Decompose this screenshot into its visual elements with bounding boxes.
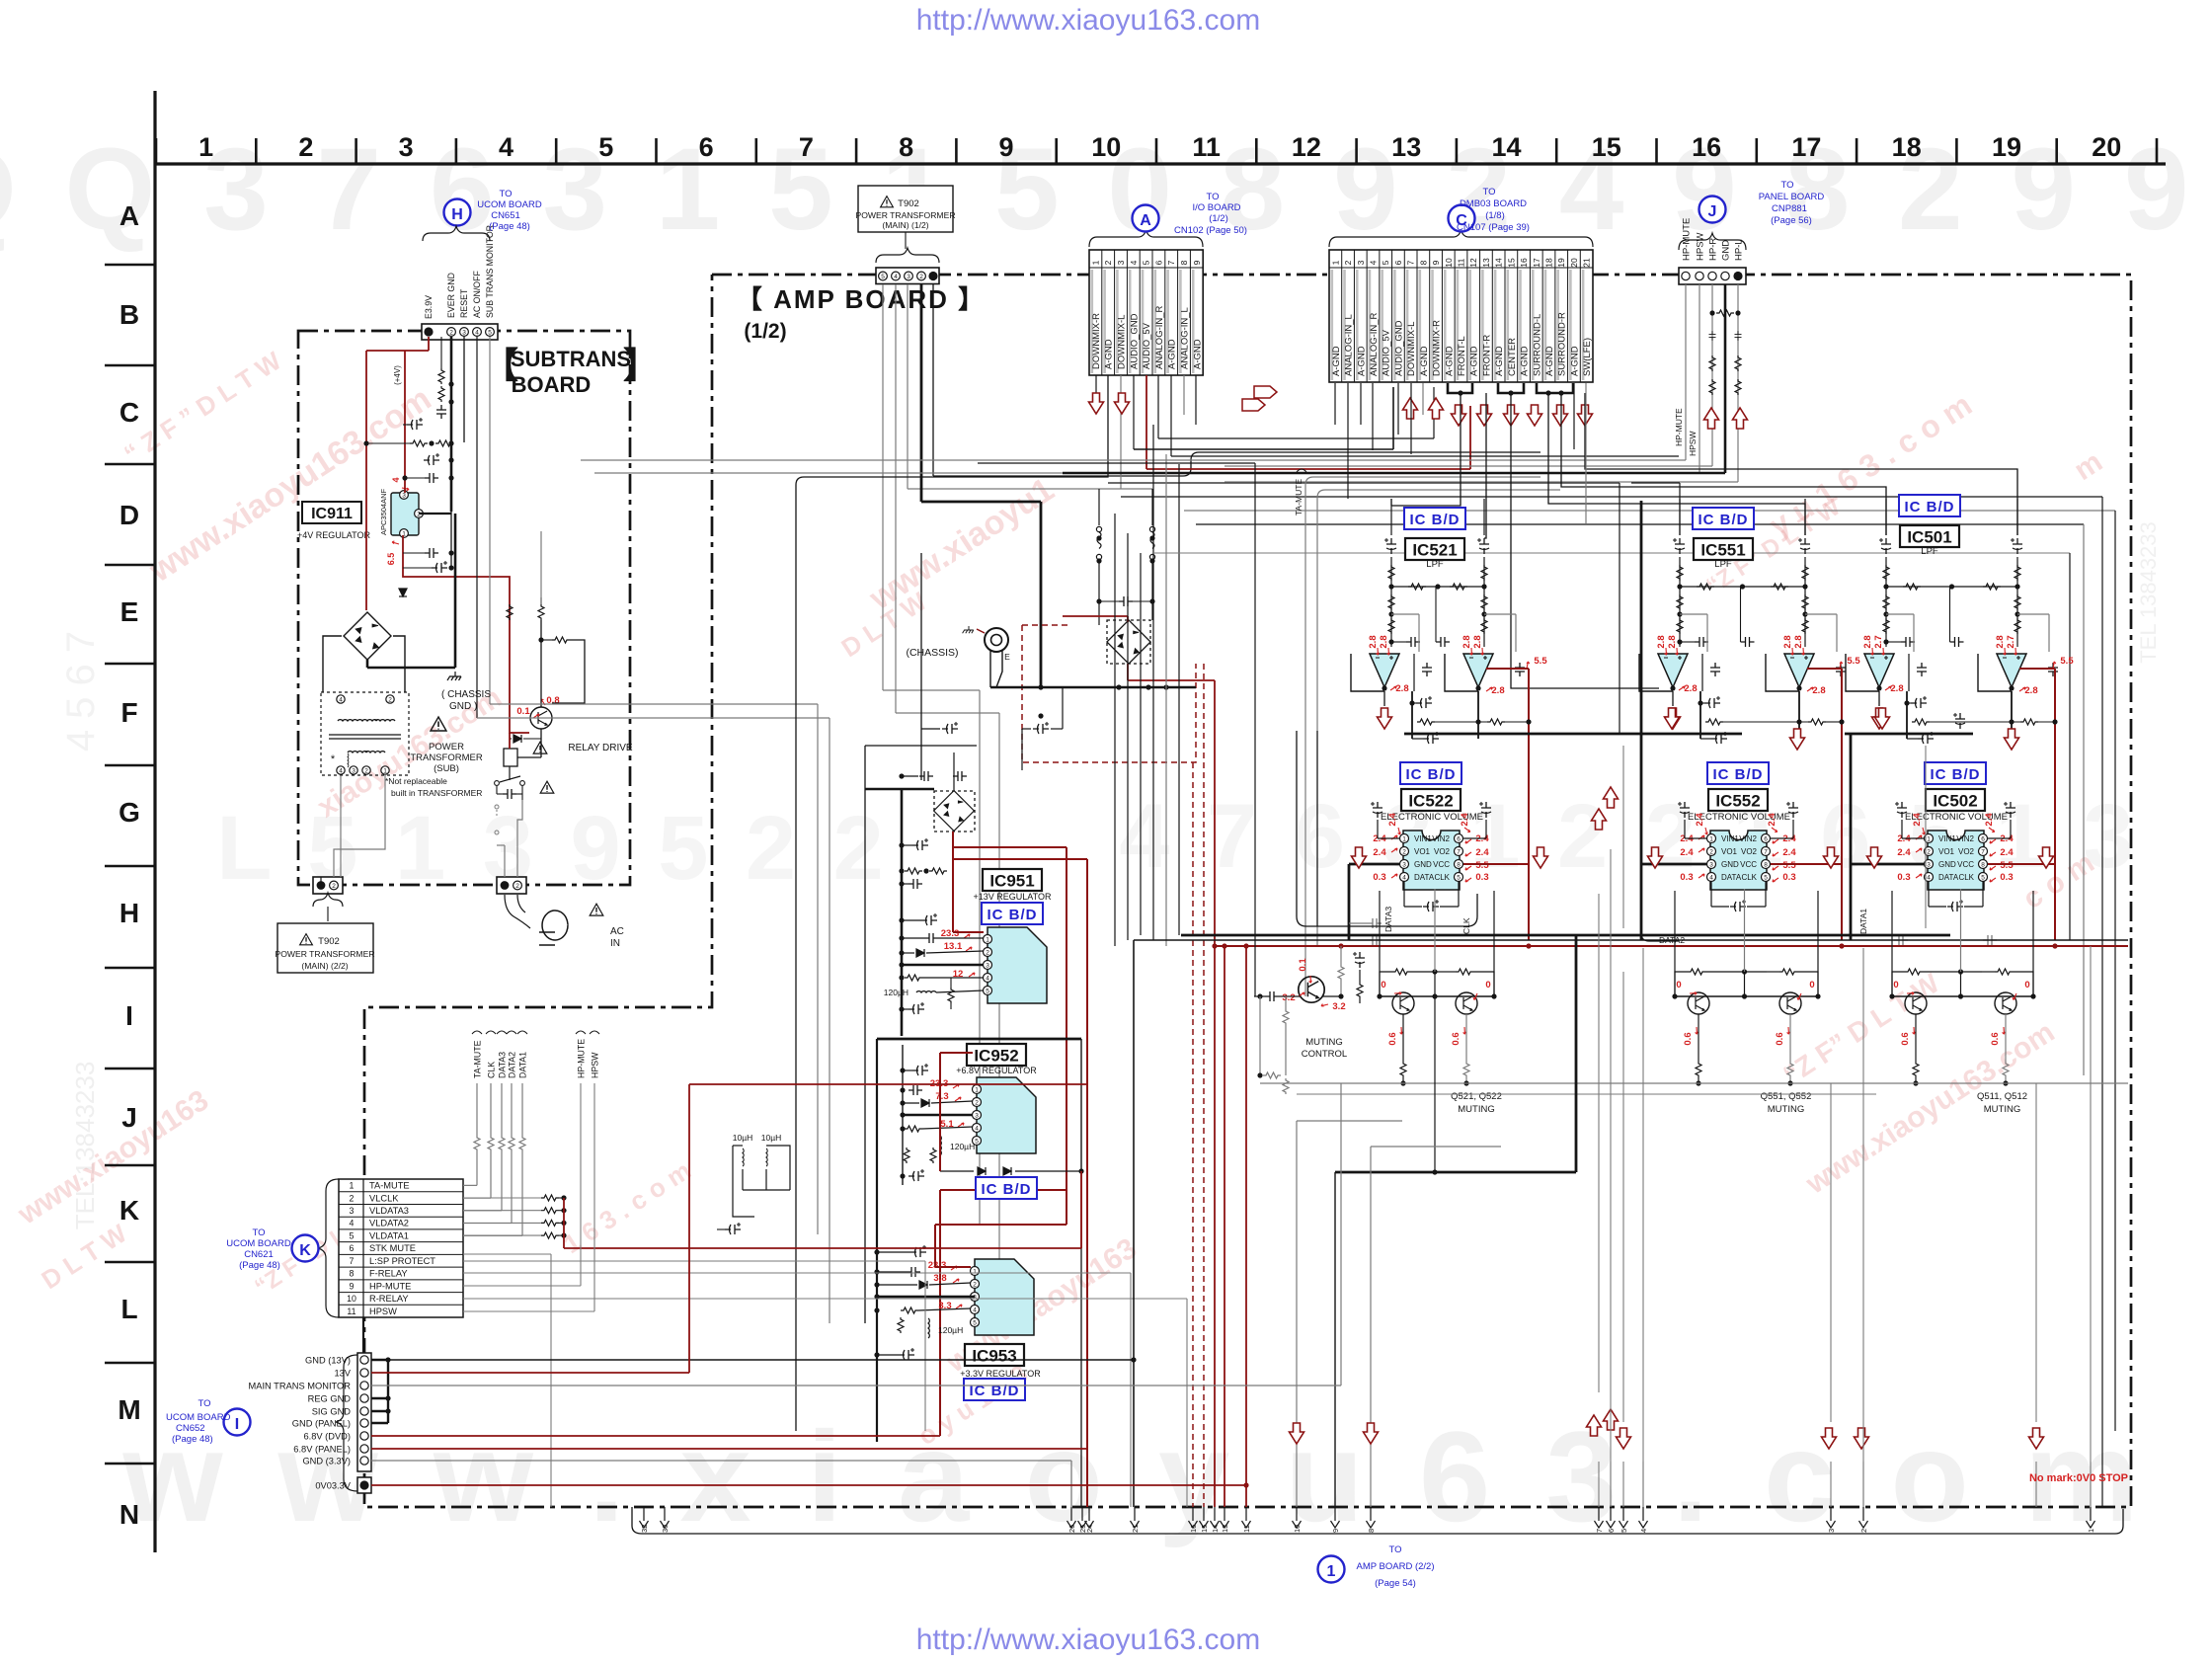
svg-text:9: 9: [350, 1281, 355, 1291]
wire +4V red rail: [428, 337, 430, 351]
rail IC952: [902, 1045, 904, 1185]
muting transistors Q551, Q552: [1688, 992, 1709, 1014]
svg-text:DATA: DATA: [1721, 873, 1742, 882]
wire gnd 13v: [388, 1359, 1134, 1361]
muting transistors Q511, Q512: [1905, 992, 1927, 1014]
svg-text:2.8: 2.8: [1461, 635, 1472, 648]
filter caps amp: [942, 722, 958, 734]
wire bridge amp out: [1127, 664, 1129, 680]
svg-text:CLK: CLK: [487, 1062, 497, 1078]
electronic volume IC552 body: [1710, 831, 1767, 890]
svg-text:GND: GND: [1414, 860, 1432, 869]
svg-text:RELAY DRIVE: RELAY DRIVE: [568, 743, 633, 753]
ac inlet wire: [505, 895, 530, 928]
svg-text:4: 4: [1369, 260, 1379, 265]
input caps IC552: [1678, 802, 1690, 818]
svg-text:5.5: 5.5: [1782, 860, 1796, 871]
electronic volume IC522 body: [1403, 831, 1460, 890]
svg-text:IC B/D: IC B/D: [1931, 766, 1981, 783]
svg-text:VO1: VO1: [1721, 847, 1738, 856]
svg-text:A-GND: A-GND: [1356, 346, 1367, 376]
svg-text:3.8: 3.8: [933, 1273, 946, 1284]
svg-text:A-GND: A-GND: [1167, 339, 1178, 369]
red arrows under C: [1403, 398, 1418, 419]
filter IC551 feedback caps: [1706, 614, 1708, 652]
svg-text:TA-MUTE: TA-MUTE: [369, 1181, 410, 1191]
svg-text:3: 3: [986, 962, 989, 969]
K brace: [318, 1179, 339, 1317]
svg-text:HPSW: HPSW: [591, 1052, 600, 1078]
svg-text:DOWNMIX-L: DOWNMIX-L: [1117, 315, 1128, 369]
IC951 red feed: [952, 831, 954, 932]
svg-text:TO: TO: [1780, 180, 1793, 191]
svg-text:13: 13: [1391, 132, 1421, 162]
red verticals right of regulators: [1066, 847, 1067, 1225]
svg-text:30: 30: [661, 1525, 670, 1533]
svg-text:IC502: IC502: [1933, 792, 1977, 811]
svg-text:IC B/D: IC B/D: [1905, 499, 1955, 515]
svg-text:5: 5: [881, 274, 885, 280]
svg-text:Q521, Q522: Q521, Q522: [1451, 1091, 1502, 1102]
svg-text:AUDIO_5V: AUDIO_5V: [1142, 322, 1152, 369]
svg-text:0.1: 0.1: [1298, 958, 1308, 972]
svg-text:E3.9V: E3.9V: [424, 295, 434, 319]
IC911 label: [302, 502, 361, 523]
long red bus 958: [1215, 945, 2128, 947]
svg-text:11: 11: [1457, 258, 1466, 267]
svg-text:6: 6: [1764, 835, 1768, 842]
bridge rectifier amp main: [1107, 620, 1150, 664]
svg-text:0.3: 0.3: [1373, 872, 1385, 883]
svg-text:14: 14: [1494, 258, 1504, 268]
svg-text:DATA: DATA: [1938, 873, 1959, 882]
svg-text:2.4: 2.4: [1984, 813, 1995, 827]
svg-text:2.8: 2.8: [1684, 683, 1697, 694]
filter IC551 cross caps: [1695, 637, 1708, 647]
svg-text:MUTING: MUTING: [1305, 1037, 1342, 1048]
svg-text:REG GND: REG GND: [308, 1394, 352, 1404]
svg-text:2.8: 2.8: [1472, 635, 1483, 648]
gray bus 1097: [1260, 1082, 2128, 1084]
svg-text:ANALOG-IN_R: ANALOG-IN_R: [1154, 305, 1165, 369]
svg-text:0.3: 0.3: [1782, 872, 1795, 883]
wire gnd 3.3v: [371, 1460, 1071, 1462]
rail IC951: [901, 790, 904, 1036]
below IC502: [1947, 900, 1963, 911]
ref circle A: [1133, 205, 1159, 232]
svg-text:18: 18: [1892, 132, 1922, 162]
svg-text:GND ): GND ): [449, 701, 477, 712]
svg-text:5: 5: [1142, 260, 1151, 265]
wire t902 pin5: [882, 284, 884, 690]
svg-text:VO1: VO1: [1414, 847, 1431, 856]
svg-text:6: 6: [1607, 1529, 1616, 1533]
svg-text:23.3: 23.3: [928, 1260, 947, 1271]
red dashed monitor loop: [1022, 624, 1070, 626]
svg-text:(Page 48): (Page 48): [172, 1434, 213, 1445]
ref circle H: [444, 199, 471, 226]
op-amp IC501 right: [1997, 654, 2026, 687]
svg-text:4: 4: [1129, 260, 1139, 265]
IC953 red feed: [934, 1225, 936, 1267]
wires from volume outputs Q551, Q552: [1674, 891, 1676, 996]
svg-text:CNP881: CNP881: [1772, 203, 1807, 214]
muting base line Q551, Q552: [1675, 995, 1818, 997]
svg-text:12: 12: [1468, 258, 1478, 268]
bottom bus line: [632, 1509, 2123, 1534]
svg-text:http://www.xiaoyu163.com: http://www.xiaoyu163.com: [916, 1623, 1261, 1656]
svg-text:AUDIO_GND: AUDIO_GND: [1393, 320, 1404, 376]
svg-text:20: 20: [2092, 132, 2121, 162]
connector A CN102: [1089, 250, 1203, 375]
svg-text:MUTING: MUTING: [1768, 1104, 1804, 1115]
svg-text:5.5: 5.5: [1847, 656, 1860, 667]
svg-text:4 5 6 7: 4 5 6 7: [59, 631, 103, 752]
svg-text:+4V REGULATOR: +4V REGULATOR: [297, 530, 370, 540]
svg-text:CN102 (Page 50): CN102 (Page 50): [1174, 225, 1247, 236]
svg-text:3: 3: [975, 1112, 979, 1119]
svg-text:UCOM BOARD: UCOM BOARD: [226, 1238, 291, 1249]
gnd feed IC522: [1349, 863, 1399, 866]
ref circle J: [1699, 197, 1726, 223]
muting base line Q521, Q522: [1380, 995, 1494, 997]
t902 main transformer 2/2 label: [277, 923, 373, 973]
muting emitters Q521, Q522: [1402, 1014, 1404, 1062]
svg-text:0V03.3V: 0V03.3V: [315, 1481, 351, 1491]
svg-text:2.4: 2.4: [1680, 847, 1694, 858]
svg-text:2.8: 2.8: [1656, 635, 1667, 648]
svg-text:3: 3: [350, 1206, 355, 1216]
svg-text:DMB03 BOARD: DMB03 BOARD: [1460, 198, 1527, 209]
svg-text:IC B/D: IC B/D: [987, 907, 1038, 923]
svg-text:L: L: [120, 1294, 137, 1324]
svg-text:19: 19: [1992, 132, 2021, 162]
svg-text:I/O BOARD: I/O BOARD: [1192, 202, 1240, 213]
bridge rectifier amp lower: [934, 791, 975, 831]
svg-text:2.4: 2.4: [1897, 847, 1911, 858]
signal wires into K: [476, 1083, 478, 1136]
wire a-gnd 1594: [1573, 383, 1575, 449]
vcc red IC552: [1771, 863, 1842, 865]
svg-text:2: 2: [1927, 848, 1931, 855]
relay switch: [509, 766, 511, 780]
red arrows under J: [1704, 408, 1719, 429]
svg-text:2: 2: [1402, 848, 1406, 855]
svg-text:GND: GND: [1721, 860, 1739, 869]
svg-text:TO: TO: [252, 1227, 265, 1238]
wire subtrans monitor link: [490, 703, 818, 705]
svg-text:17: 17: [1532, 258, 1541, 268]
svg-text:5.5: 5.5: [1534, 656, 1547, 667]
svg-text:DATA1: DATA1: [1858, 909, 1868, 934]
svg-text:IC951: IC951: [989, 872, 1034, 891]
svg-text:RESET: RESET: [459, 288, 469, 318]
svg-text:VO1: VO1: [1938, 847, 1955, 856]
red verticals from bridge: [1214, 680, 1216, 1507]
svg-text:A-GND: A-GND: [1544, 346, 1555, 376]
hp lines down: [1711, 284, 1713, 466]
svg-text:BOARD: BOARD: [512, 372, 592, 397]
wire t902 pin3: [907, 284, 908, 489]
svg-text:5: 5: [986, 988, 989, 994]
IC952 diodes: [978, 1167, 986, 1175]
svg-text:3: 3: [352, 767, 355, 774]
svg-text:4: 4: [350, 1219, 355, 1228]
svg-text:IC B/D: IC B/D: [1713, 766, 1764, 783]
wire ever gnd: [450, 337, 453, 512]
svg-text:0.3: 0.3: [2000, 872, 2013, 883]
svg-text:HP-MUTE: HP-MUTE: [369, 1281, 411, 1291]
connector subtrans top: [422, 324, 498, 340]
wire surround-r to rail501: [1561, 393, 1886, 535]
arrows section3: [1867, 847, 1882, 868]
filter IC501 cross caps: [1901, 637, 1915, 647]
wire 0v03.3v red: [371, 1484, 1246, 1486]
svg-text:ANALOG-IN_R: ANALOG-IN_R: [1369, 312, 1380, 376]
svg-text:1: 1: [350, 1181, 355, 1191]
svg-text:T902: T902: [318, 936, 340, 947]
wire front-l to rail: [1391, 393, 1461, 506]
svg-text:2.4: 2.4: [1695, 813, 1705, 827]
svg-text:VIN2: VIN2: [1432, 834, 1450, 843]
regulator IC952 body: [977, 1077, 1036, 1153]
svg-text:IC521: IC521: [1412, 541, 1457, 560]
svg-text:MAIN TRANS MONITOR: MAIN TRANS MONITOR: [249, 1382, 352, 1391]
warning triangle switch: [540, 781, 554, 793]
svg-text:SURROUND-R: SURROUND-R: [1557, 312, 1568, 376]
svg-text:13V: 13V: [334, 1369, 351, 1379]
svg-text:1: 1: [973, 1268, 977, 1275]
svg-text:A-GND: A-GND: [1444, 346, 1455, 376]
thick C pair U1: [1448, 383, 1472, 393]
svg-text:VCC: VCC: [1740, 860, 1757, 869]
ruler top: [156, 162, 2166, 165]
svg-text:HPSW: HPSW: [1688, 432, 1698, 457]
subtrans board border: [298, 331, 630, 885]
svg-text:0.3: 0.3: [1475, 872, 1488, 883]
svg-text:2.8: 2.8: [1862, 635, 1873, 648]
svg-text:(Page 54): (Page 54): [1375, 1578, 1416, 1589]
svg-text:ANALOG-IN_L: ANALOG-IN_L: [1344, 314, 1355, 376]
svg-text:APC3504ANF: APC3504ANF: [379, 488, 388, 535]
svg-text:CENTER: CENTER: [1507, 338, 1518, 376]
center vertical buses: [1114, 514, 1116, 946]
connector subtrans bottom left: [313, 877, 343, 894]
svg-text:TO: TO: [197, 1398, 210, 1409]
svg-text:CN107 (Page 39): CN107 (Page 39): [1457, 222, 1530, 233]
thick bus section2: [1404, 733, 1742, 736]
svg-text:0.6: 0.6: [1990, 1032, 2001, 1045]
svg-text:4: 4: [475, 329, 479, 336]
svg-text:2.4: 2.4: [1475, 847, 1489, 858]
svg-text:VIN2: VIN2: [1956, 834, 1974, 843]
svg-text:VLDATA3: VLDATA3: [369, 1206, 409, 1216]
svg-text:VIN1: VIN1: [1721, 834, 1739, 843]
svg-text:11: 11: [347, 1307, 355, 1316]
svg-text:E: E: [120, 596, 139, 627]
svg-text:2.7: 2.7: [1873, 635, 1884, 648]
svg-text:UCOM BOARD: UCOM BOARD: [166, 1412, 231, 1423]
filter IC521 cross resistors: [1391, 586, 1484, 588]
ref circle C: [1449, 205, 1475, 232]
svg-text:5: 5: [1619, 1529, 1628, 1533]
relay coil: [504, 749, 517, 766]
svg-text:2: 2: [986, 949, 989, 956]
svg-text:L:SP PROTECT: L:SP PROTECT: [369, 1256, 435, 1266]
connector t902 main 1/2: [876, 268, 939, 284]
svg-text:15: 15: [1506, 258, 1516, 268]
svg-text:6.5: 6.5: [386, 553, 396, 566]
svg-text:HP-L: HP-L: [1734, 239, 1745, 261]
long black bus 947: [1181, 934, 1950, 937]
svg-text:3: 3: [462, 329, 466, 336]
svg-text:2.4: 2.4: [1387, 813, 1398, 827]
svg-text:LPF: LPF: [1714, 559, 1732, 570]
muting emitters Q551, Q552: [1698, 1014, 1699, 1062]
svg-text:2.7: 2.7: [2006, 635, 2016, 648]
svg-text:2.4: 2.4: [1373, 847, 1386, 858]
svg-text:A-GND: A-GND: [1331, 346, 1342, 376]
svg-text:T902: T902: [898, 198, 919, 209]
muting emitters Q511, Q512: [1915, 1014, 1917, 1062]
svg-text:16: 16: [1692, 132, 1721, 162]
svg-text:1: 1: [1709, 835, 1713, 842]
svg-text:DATA3: DATA3: [1383, 907, 1393, 932]
svg-text:5: 5: [488, 329, 492, 336]
svg-text:3: 3: [907, 274, 910, 280]
svg-text:TO: TO: [1388, 1544, 1401, 1555]
svg-text:CLK: CLK: [1958, 873, 1974, 882]
svg-text:4: 4: [1709, 874, 1713, 881]
svg-text:2: 2: [1709, 848, 1713, 855]
svg-text:DATA: DATA: [1414, 873, 1435, 882]
svg-text:0: 0: [1381, 980, 1385, 990]
amp board border: [364, 275, 2131, 1507]
svg-text:(1/8): (1/8): [1485, 210, 1505, 221]
svg-text:18: 18: [1544, 258, 1554, 268]
wire reset: [463, 337, 465, 442]
svg-text:IC B/D: IC B/D: [982, 1181, 1032, 1198]
svg-text:0.6: 0.6: [1387, 1032, 1398, 1045]
svg-text:GND: GND: [1938, 860, 1956, 869]
svg-text:N: N: [119, 1499, 139, 1530]
svg-text:11: 11: [1242, 1525, 1251, 1533]
svg-text:2.8: 2.8: [1793, 635, 1804, 648]
input caps IC502: [1895, 802, 1907, 818]
wire A2 long corner: [796, 375, 1108, 1431]
svg-text:6.8V (PANEL): 6.8V (PANEL): [293, 1445, 351, 1455]
IC952 rail parts: [912, 1064, 928, 1075]
svg-text:CLK: CLK: [1434, 873, 1450, 882]
svg-text:Q551, Q552: Q551, Q552: [1761, 1091, 1812, 1102]
svg-text:2: 2: [975, 1099, 979, 1106]
svg-text:VIN2: VIN2: [1739, 834, 1757, 843]
op-amp IC551 left: [1658, 654, 1688, 687]
svg-text:ANALOG-IN_L: ANALOG-IN_L: [1180, 307, 1191, 369]
svg-text:VO2: VO2: [1434, 847, 1451, 856]
I connector gnd group: [371, 1359, 388, 1361]
filter IC551 cross resistors: [1680, 586, 1805, 588]
svg-text:4: 4: [339, 767, 343, 774]
wire black corner 876: [865, 745, 977, 747]
svg-text:AC ON/OFF: AC ON/OFF: [472, 270, 482, 318]
svg-text:IC953: IC953: [972, 1347, 1016, 1366]
svg-text:A-GND: A-GND: [1520, 346, 1531, 376]
svg-text:24: 24: [1085, 1525, 1094, 1533]
svg-text:2: 2: [332, 883, 336, 890]
muting control transistor Q520: [1299, 977, 1324, 1002]
svg-text:4: 4: [1639, 1529, 1648, 1533]
svg-text:F: F: [120, 697, 137, 728]
svg-text:1: 1: [1402, 835, 1406, 842]
svg-text:VLCLK: VLCLK: [369, 1193, 399, 1203]
stair wires below muting: [1297, 1120, 1402, 1122]
bus A C mid horizontals: [1134, 448, 1393, 450]
svg-text:( CHASSIS: ( CHASSIS: [441, 689, 491, 700]
svg-text:A-GND: A-GND: [1569, 346, 1580, 376]
svg-text:CN621: CN621: [244, 1249, 274, 1260]
svg-text:13: 13: [1221, 1525, 1229, 1533]
svg-text:9: 9: [998, 132, 1013, 162]
wire bridge amp in red: [1063, 615, 1128, 617]
svg-text:9: 9: [1331, 1529, 1340, 1533]
svg-text:(MAIN) (1/2): (MAIN) (1/2): [882, 220, 928, 230]
svg-text:(SUB): (SUB): [434, 763, 459, 774]
regulator IC951 body: [987, 927, 1047, 1003]
svg-text:16: 16: [1519, 258, 1529, 268]
svg-text:5: 5: [1764, 874, 1768, 881]
svg-text:AC: AC: [610, 926, 624, 937]
svg-text:2.4: 2.4: [1767, 813, 1777, 827]
red arrows under A: [1089, 393, 1104, 414]
svg-text:0.3: 0.3: [1680, 872, 1693, 883]
svg-text:7: 7: [799, 132, 814, 162]
filter IC501 rails: [1879, 538, 1891, 554]
svg-text:VO2: VO2: [1741, 847, 1758, 856]
svg-text:7.3: 7.3: [935, 1091, 948, 1102]
svg-text:【 AMP BOARD 】: 【 AMP BOARD 】: [737, 284, 986, 314]
warning triangle relay: [533, 742, 547, 753]
filter IC551 rails: [1673, 538, 1685, 554]
wires from volume outputs Q521, Q522: [1379, 891, 1381, 996]
svg-text:*Not replaceable: *Not replaceable: [385, 776, 447, 786]
hp-mute hpsw long wires: [1685, 284, 1687, 460]
warning triangle subtrans: [431, 717, 446, 731]
svg-text:2: 2: [919, 274, 923, 280]
wires descending from sections to bus: [1316, 731, 1318, 926]
svg-text:GND: GND: [1721, 240, 1732, 261]
svg-text:TA-MUTE: TA-MUTE: [1294, 479, 1303, 515]
svg-text:5: 5: [973, 1319, 977, 1326]
svg-text:15: 15: [1200, 1525, 1209, 1533]
svg-text:1: 1: [1330, 260, 1340, 265]
svg-text:3: 3: [1356, 260, 1366, 265]
svg-text:2.4: 2.4: [2000, 847, 2014, 858]
connector J panel board CNP881: [1679, 268, 1746, 284]
svg-text:2.8: 2.8: [1491, 685, 1504, 696]
svg-text:IC522: IC522: [1408, 792, 1453, 811]
svg-text:SURROUND-L: SURROUND-L: [1532, 314, 1542, 376]
svg-text:5: 5: [598, 132, 613, 162]
svg-text:19: 19: [1556, 258, 1566, 268]
IC952 red feed: [939, 1053, 941, 1171]
svg-text:12: 12: [1292, 132, 1321, 162]
svg-text:1: 1: [986, 936, 989, 943]
wire 6.8v panel red: [371, 1448, 1087, 1450]
svg-text:STK MUTE: STK MUTE: [369, 1243, 416, 1253]
svg-text:LPF: LPF: [1921, 546, 1938, 557]
svg-text:HP-MUTE: HP-MUTE: [577, 1039, 587, 1078]
